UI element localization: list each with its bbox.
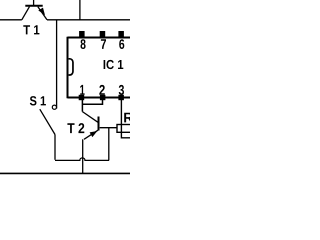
transistor T1 xyxy=(22,0,47,20)
pin number 7 xyxy=(101,39,106,49)
IC1 pin 7 box xyxy=(100,31,106,37)
wire: pin 3 wire down and right xyxy=(121,100,130,138)
label IC1 xyxy=(104,60,124,69)
pin number 1 xyxy=(80,85,84,95)
IC1 package outline xyxy=(68,37,131,99)
ground rail xyxy=(0,172,130,174)
IC1 pin 3 box xyxy=(118,95,124,100)
IC1 pin 8 box xyxy=(79,31,85,37)
wire: IC pin1-pin2 junction xyxy=(82,100,102,112)
wire: switch bottom vertical xyxy=(54,135,56,160)
wire: vertical up to base node xyxy=(108,128,110,161)
label R xyxy=(124,113,133,123)
wire: vertical down to switch contact xyxy=(56,20,58,109)
pin number 2 xyxy=(99,85,105,95)
switch S1 contact circle xyxy=(52,105,56,109)
relay coil R box xyxy=(117,125,134,133)
label T2 xyxy=(67,123,84,133)
IC1 pin 1 box xyxy=(79,95,85,100)
IC1 pin 6 box xyxy=(118,31,124,37)
wire: left collector wire to T1 xyxy=(0,19,22,21)
pin number 6 xyxy=(119,39,124,49)
label T1 xyxy=(23,25,39,34)
wire: horizontal with hop over emitter wire xyxy=(55,158,109,160)
wire: vertical branch up to top edge xyxy=(79,0,81,20)
pin number 3 xyxy=(119,85,124,95)
label S1 xyxy=(30,96,46,105)
wire: top rail from T1 emitter to right edge xyxy=(47,19,130,21)
wire: T2 emitter down to ground rail xyxy=(82,139,84,173)
IC1 pin 2 box xyxy=(100,95,106,100)
transistor T2 xyxy=(82,112,117,140)
pin number 8 xyxy=(81,39,86,49)
switch S1 blade xyxy=(40,109,55,134)
